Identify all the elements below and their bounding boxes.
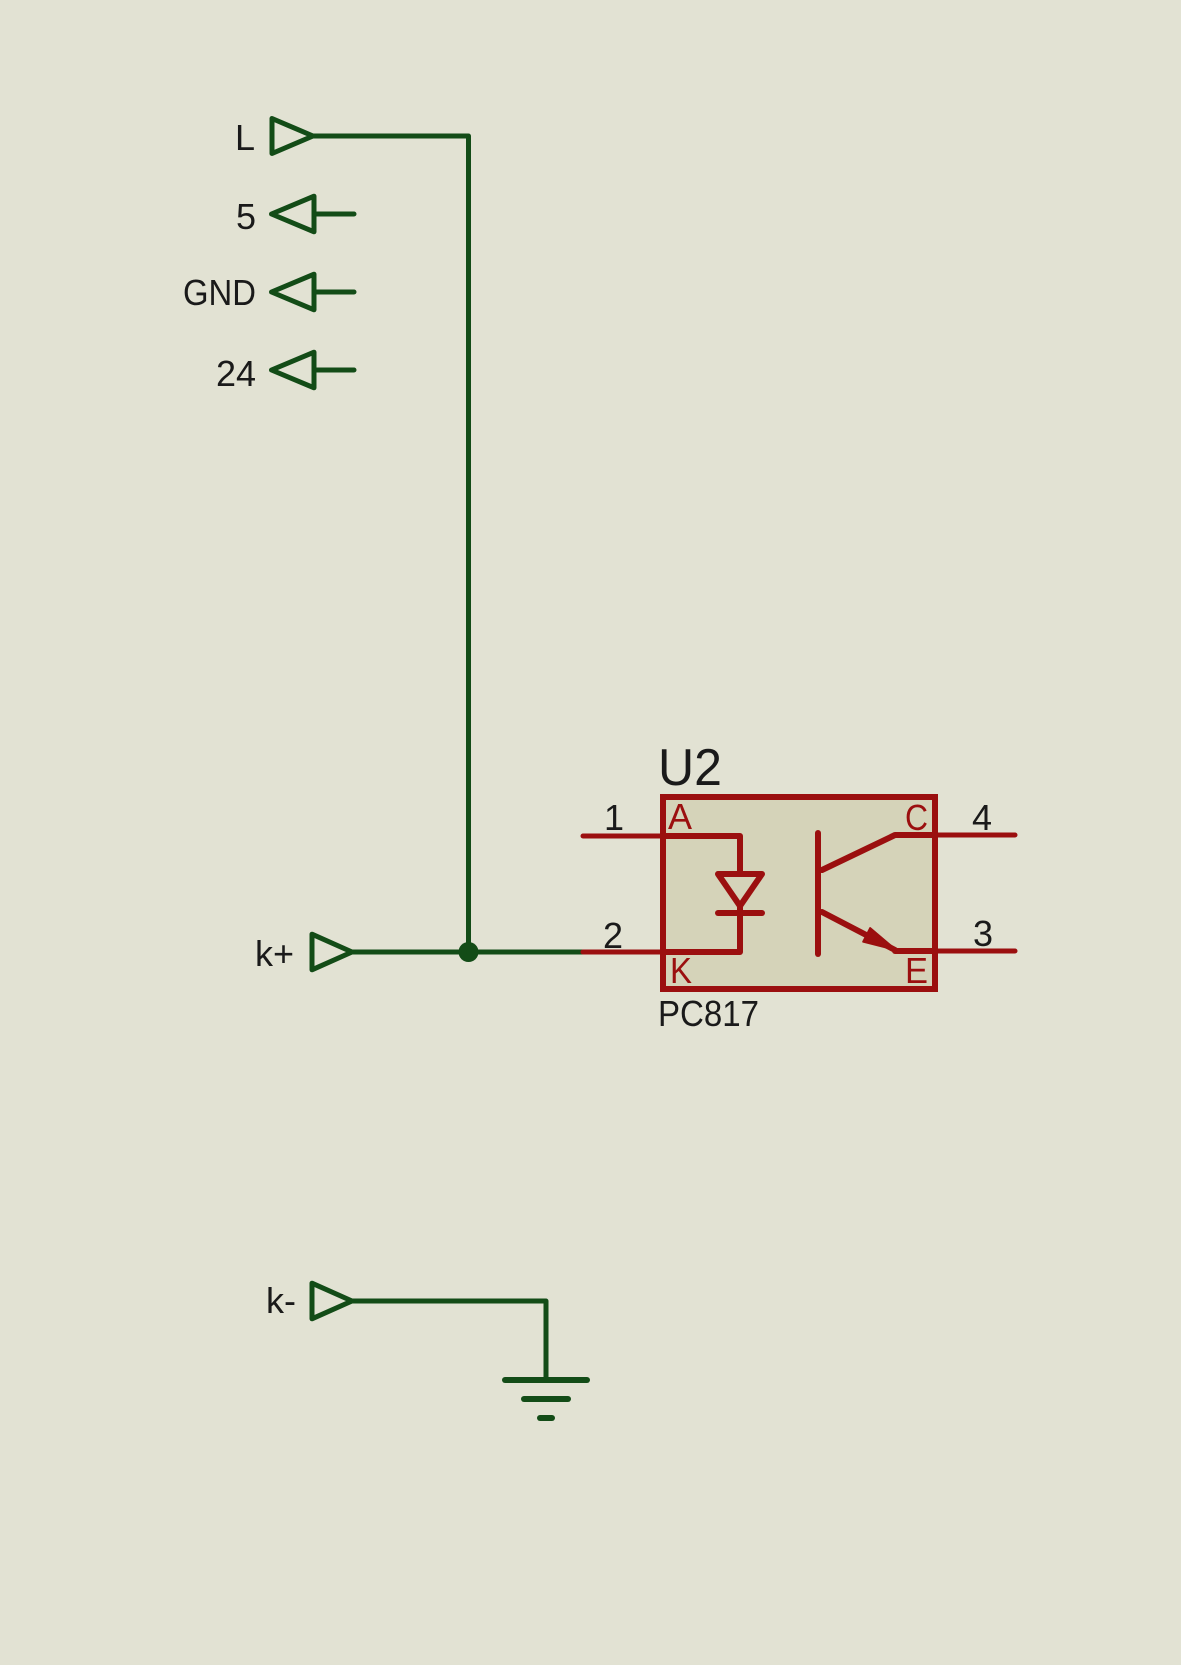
- wire junction to U2 pin 2: [469, 950, 584, 955]
- optocoupler U2 (PC817): [583, 739, 1015, 1034]
- terminal 5: [272, 196, 355, 232]
- svg-text:3: 3: [973, 913, 993, 954]
- svg-text:L: L: [235, 117, 255, 158]
- terminal L: [272, 119, 313, 154]
- svg-text:4: 4: [972, 797, 992, 838]
- svg-text:K: K: [670, 950, 692, 991]
- U2 body: [663, 797, 935, 989]
- svg-text:5: 5: [236, 196, 256, 237]
- svg-text:PC817: PC817: [658, 993, 759, 1034]
- svg-text:k-: k-: [266, 1280, 296, 1321]
- wire L to junction (net L): [313, 136, 469, 952]
- svg-text:24: 24: [216, 353, 256, 394]
- svg-text:U2: U2: [658, 739, 722, 797]
- pin 3 lead: [935, 949, 1015, 954]
- LED D1 cathode lead: [663, 906, 740, 952]
- terminal GND: [272, 274, 355, 310]
- emitter arrowhead: [863, 928, 896, 950]
- phototransistor base plate: [815, 833, 821, 954]
- pin 2 lead: [583, 950, 663, 955]
- svg-text:A: A: [668, 796, 692, 837]
- terminal k-: [312, 1283, 352, 1319]
- LED D1 cathode bar: [718, 910, 762, 916]
- wire k+ to junction: [352, 950, 469, 955]
- wire k- to ground: [352, 1301, 546, 1380]
- LED D1 anode lead: [663, 836, 740, 874]
- svg-text:2: 2: [603, 915, 623, 956]
- svg-text:1: 1: [604, 797, 624, 838]
- svg-text:k+: k+: [255, 933, 294, 974]
- terminal k+: [312, 934, 352, 970]
- phototransistor emitter: [822, 912, 935, 951]
- phototransistor collector: [822, 835, 935, 870]
- svg-text:GND: GND: [183, 272, 256, 313]
- LED D1 triangle: [718, 874, 762, 906]
- svg-text:C: C: [905, 797, 928, 838]
- ground symbol: [505, 1380, 587, 1418]
- pin 4 lead: [935, 833, 1015, 838]
- terminal 24: [272, 352, 355, 388]
- junction dot: [459, 942, 479, 962]
- pin 1 lead: [583, 834, 663, 839]
- svg-text:E: E: [905, 950, 928, 991]
